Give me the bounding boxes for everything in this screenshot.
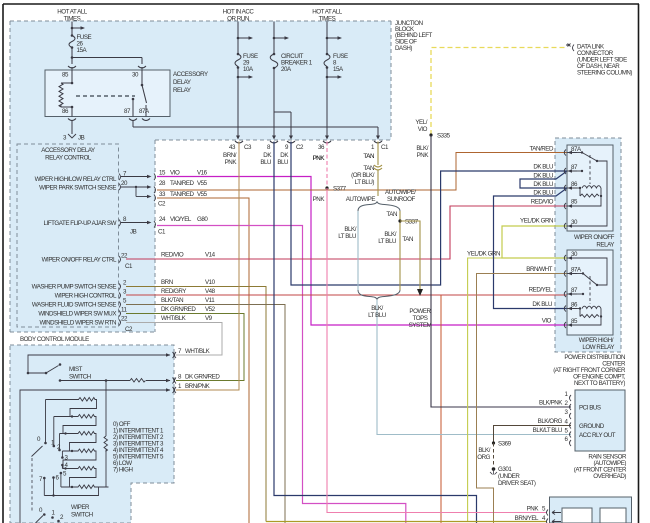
svg-text:WIPER HIGH/LOW RELAY CTRL: WIPER HIGH/LOW RELAY CTRL xyxy=(35,176,117,183)
relay1 wire labels xyxy=(520,146,554,225)
svg-text:15A: 15A xyxy=(333,66,344,73)
svg-text:SUNROOF: SUNROOF xyxy=(387,196,415,203)
svg-text:V11: V11 xyxy=(205,297,215,304)
mist switch circuit xyxy=(27,353,171,374)
svg-text:ACCESSORY: ACCESSORY xyxy=(173,71,208,78)
svg-text:PNK: PNK xyxy=(313,196,326,203)
svg-text:DK BLU: DK BLU xyxy=(533,173,553,180)
svg-text:V10: V10 xyxy=(205,279,216,286)
svg-text:TAN/RED: TAN/RED xyxy=(170,191,195,198)
svg-text:TIMES: TIMES xyxy=(319,16,336,23)
wire YEL/DK GRN branch down to wiper motor park xyxy=(468,258,502,522)
svg-text:RED/VIO: RED/VIO xyxy=(161,252,184,259)
svg-text:22: 22 xyxy=(121,316,128,323)
power distribution center box xyxy=(553,138,626,387)
fuse 29 circuit xyxy=(235,22,253,140)
svg-text:LT BLU: LT BLU xyxy=(378,238,396,245)
wire RED/VIO from BCM 22 to wiper on/off relay 85 xyxy=(126,206,567,259)
svg-text:WHT/BLK: WHT/BLK xyxy=(185,348,211,355)
svg-text:G80: G80 xyxy=(197,216,208,223)
BCM row arrows to junction connector xyxy=(119,174,156,326)
svg-text:BLK/: BLK/ xyxy=(344,226,356,233)
svg-text:RED/VIO: RED/VIO xyxy=(531,199,554,206)
junction block label xyxy=(395,20,433,52)
wire BRN/WHT relay2 87A to wiper motor xyxy=(477,274,568,523)
svg-text:87A: 87A xyxy=(571,146,582,153)
svg-text:YEL/DK GRN: YEL/DK GRN xyxy=(467,251,500,258)
wire DK GRN/RED from BCM 11 to wiper switch 8 xyxy=(126,314,244,381)
relay1 pin brackets xyxy=(564,150,577,230)
svg-text:BRN/YEL: BRN/YEL xyxy=(515,515,539,522)
svg-text:WIPER ON/OFF RELAY CTRL: WIPER ON/OFF RELAY CTRL xyxy=(42,257,117,264)
splice S335 xyxy=(429,133,432,136)
svg-text:YEL/: YEL/ xyxy=(415,119,427,126)
svg-text:TIMES: TIMES xyxy=(64,16,81,23)
svg-text:RELAY: RELAY xyxy=(596,242,614,249)
hot labels xyxy=(57,9,343,23)
wire YEL dashed to data link connector xyxy=(431,48,565,136)
svg-text:LT BLU: LT BLU xyxy=(338,233,356,240)
svg-text:WIPER: WIPER xyxy=(71,504,90,511)
wire TAN from JB 1 with inline connector xyxy=(374,142,382,197)
wire DK BLU relay1 86 to relay2 86 xyxy=(494,188,568,309)
wire DK BLU loop relay1 87 to 86 xyxy=(520,171,567,188)
svg-text:VIO: VIO xyxy=(542,318,552,325)
svg-text:PNK: PNK xyxy=(527,506,540,513)
svg-text:VIO: VIO xyxy=(418,126,428,133)
svg-text:BLK/ORG: BLK/ORG xyxy=(538,418,563,425)
ladder contact buses xyxy=(44,400,98,497)
svg-text:DK BLU: DK BLU xyxy=(532,301,552,308)
svg-text:ACCESSORY DELAY: ACCESSORY DELAY xyxy=(41,147,95,154)
svg-text:15: 15 xyxy=(159,170,166,177)
wire TAN from S337 to power tops system xyxy=(400,221,423,296)
relay2 pin brackets xyxy=(564,255,577,328)
svg-text:RED/YEL: RED/YEL xyxy=(529,287,553,294)
svg-text:20: 20 xyxy=(121,180,128,187)
svg-text:BODY CONTROL MODULE: BODY CONTROL MODULE xyxy=(20,336,89,343)
svg-text:TAN: TAN xyxy=(363,165,374,172)
svg-text:PCI BUS: PCI BUS xyxy=(579,405,601,412)
svg-text:86: 86 xyxy=(62,108,69,115)
svg-text:BRN/: BRN/ xyxy=(223,152,237,159)
svg-text:87: 87 xyxy=(571,287,578,294)
body control module box xyxy=(10,140,155,343)
svg-text:85: 85 xyxy=(571,199,578,206)
svg-text:TAN/RED: TAN/RED xyxy=(529,146,554,153)
svg-text:TAN: TAN xyxy=(402,236,413,243)
svg-text:BLU: BLU xyxy=(277,159,288,166)
wiper switch blade xyxy=(32,446,43,512)
wire BRN from BCM 2 to wiper motor BRN/YEL xyxy=(126,287,266,522)
BCM wire name labels xyxy=(158,170,216,323)
svg-text:BLK/: BLK/ xyxy=(416,145,428,152)
svg-text:V14: V14 xyxy=(205,252,216,259)
svg-text:S335: S335 xyxy=(437,133,451,140)
svg-text:MIST: MIST xyxy=(69,366,83,373)
svg-text:POWER: POWER xyxy=(409,308,431,315)
wiper motor box xyxy=(547,497,632,523)
svg-text:DK BLU: DK BLU xyxy=(533,164,553,171)
svg-text:V52: V52 xyxy=(205,306,216,313)
svg-text:STEERING COLUMN): STEERING COLUMN) xyxy=(577,70,632,77)
junction block box xyxy=(10,21,391,140)
svg-text:V9: V9 xyxy=(205,315,213,322)
autowipe left branch BLK/LT BLU xyxy=(357,211,359,290)
accessory delay relay control box xyxy=(17,144,119,327)
wiper switch mux wire with resistor xyxy=(59,379,171,383)
wiper high/low relay U-relay2 xyxy=(567,250,614,351)
svg-text:V55: V55 xyxy=(197,191,208,198)
autowipe right branch TAN xyxy=(399,211,401,290)
svg-text:TOPS: TOPS xyxy=(413,315,428,322)
svg-text:VIO/YEL: VIO/YEL xyxy=(170,216,192,223)
resistor ladder R1-R6 xyxy=(46,398,109,489)
wire BLK/LT BLU from brace to rain sensor 5 xyxy=(377,300,571,435)
wire TAN/RED from BCM 28 to wiper on/off relay 87A xyxy=(157,153,567,191)
svg-text:JB: JB xyxy=(130,229,137,236)
svg-text:20A: 20A xyxy=(281,66,292,73)
svg-text:C1: C1 xyxy=(125,263,133,270)
svg-text:VIO: VIO xyxy=(170,170,180,177)
svg-text:87A: 87A xyxy=(571,267,582,274)
svg-text:HOT IN ACC: HOT IN ACC xyxy=(223,9,255,16)
wire BRN/PNK from JB 43 to wiper switch 1 xyxy=(176,142,239,391)
switch contacts dots and numbers xyxy=(43,442,64,480)
svg-text:BRN/PNK: BRN/PNK xyxy=(185,383,211,390)
svg-text:24: 24 xyxy=(159,216,166,223)
svg-text:30: 30 xyxy=(571,251,578,258)
rain sensor box xyxy=(574,390,627,480)
wire WHT/BLK from BCM 22 to wiper switch 7 xyxy=(126,323,222,356)
svg-text:7) HIGH: 7) HIGH xyxy=(113,467,133,474)
svg-text:87: 87 xyxy=(571,164,578,171)
svg-text:GROUND: GROUND xyxy=(579,423,605,430)
svg-text:WASHER FLUID SWITCH SENSE: WASHER FLUID SWITCH SENSE xyxy=(32,302,116,309)
svg-text:LT BLU: LT BLU xyxy=(368,312,386,319)
relay pin 87 wire to JB pin 1 xyxy=(129,119,380,140)
vertical resistor from mux wire xyxy=(104,381,108,488)
switch position list xyxy=(113,421,164,474)
svg-text:TAN: TAN xyxy=(363,153,374,160)
svg-text:V55: V55 xyxy=(197,180,208,187)
svg-text:C2: C2 xyxy=(158,201,166,208)
svg-text:BLU: BLU xyxy=(260,159,271,166)
wire TAN/RED from BCM 33 down to wiper motor xyxy=(157,198,249,523)
svg-text:G301: G301 xyxy=(498,466,512,473)
svg-text:DK: DK xyxy=(280,152,289,159)
JB bottom connector brackets and pin labels xyxy=(235,141,382,143)
wire PNK from S377 to wiper motor 5 xyxy=(327,188,547,513)
svg-text:C2: C2 xyxy=(296,144,304,151)
svg-text:WIPER ON/OFF: WIPER ON/OFF xyxy=(574,234,615,241)
wire BLK/ORG rain sensor 4 to S369 xyxy=(494,426,572,444)
wire BLK/TAN from BCM 5 xyxy=(126,305,285,523)
svg-text:V16: V16 xyxy=(197,170,208,177)
wire RED/YEL branch down to motor xyxy=(440,295,442,523)
wire VIO/YEL from BCM 24 liftgate xyxy=(157,226,406,523)
svg-text:DRIVER SEAT): DRIVER SEAT) xyxy=(498,480,536,487)
svg-text:ACC RLY OUT: ACC RLY OUT xyxy=(579,432,616,439)
svg-text:WIPER HIGH/: WIPER HIGH/ xyxy=(579,337,614,344)
svg-text:DK BLU: DK BLU xyxy=(533,190,553,197)
svg-text:PNK: PNK xyxy=(417,152,430,159)
svg-text:PNK: PNK xyxy=(313,155,326,162)
wire DK BLU from JB 8 down to wiper motor xyxy=(274,142,477,523)
rain sensor pins xyxy=(570,395,572,446)
svg-text:S369: S369 xyxy=(498,441,512,448)
svg-text:LT BLU): LT BLU) xyxy=(355,179,375,186)
svg-text:OR RUN: OR RUN xyxy=(227,16,249,23)
svg-text:HOT AT ALL: HOT AT ALL xyxy=(312,9,343,16)
wiper on/off relay U-relay1 xyxy=(567,145,615,249)
svg-text:33: 33 xyxy=(159,191,166,198)
svg-text:TAN/RED: TAN/RED xyxy=(170,180,195,187)
svg-text:30: 30 xyxy=(571,219,578,226)
svg-text:WASHER PUMP SWITCH SENSE: WASHER PUMP SWITCH SENSE xyxy=(32,284,117,291)
relay2 wire labels xyxy=(467,251,553,325)
svg-text:85: 85 xyxy=(62,72,69,79)
relay1 internals xyxy=(567,151,607,226)
svg-text:LOW RELAY: LOW RELAY xyxy=(582,344,614,351)
svg-text:TAN: TAN xyxy=(386,211,397,218)
wire RED/GRY / RED/YEL from BCM 3 to wiper high/low relay 87 xyxy=(126,294,567,296)
svg-text:WINDSHIELD WIPER SW RTN: WINDSHIELD WIPER SW RTN xyxy=(39,320,116,327)
relay pin 86 wire to JB terminal 3 xyxy=(68,119,76,139)
BCM pin numbers / connector labels xyxy=(121,171,137,334)
svg-text:SWITCH: SWITCH xyxy=(71,512,93,519)
data link connector symbol and label xyxy=(566,44,574,52)
svg-text:HOT AT ALL: HOT AT ALL xyxy=(57,9,88,16)
svg-text:DASH): DASH) xyxy=(395,45,412,52)
svg-text:DK: DK xyxy=(263,152,272,159)
wire BRN/YEL to wiper motor 4 xyxy=(266,521,547,523)
svg-text:DK GRN/RED: DK GRN/RED xyxy=(161,306,196,313)
svg-text:S377: S377 xyxy=(333,186,347,193)
wire DK BLU from JB 9 to wiper on/off relay 87 xyxy=(291,142,567,286)
ground G301 xyxy=(493,443,495,467)
svg-text:43: 43 xyxy=(229,144,236,151)
svg-text:WINDSHIELD WIPER SW MUX: WINDSHIELD WIPER SW MUX xyxy=(38,311,116,318)
svg-text:RELAY: RELAY xyxy=(173,87,191,94)
svg-text:AUTOWIPE: AUTOWIPE xyxy=(346,196,376,203)
svg-text:WIPER HIGH CONTROL: WIPER HIGH CONTROL xyxy=(55,293,117,300)
svg-text:LIFTGATE FLIP-UP AJAR SW: LIFTGATE FLIP-UP AJAR SW xyxy=(43,220,116,227)
svg-text:AUTOWIPE/: AUTOWIPE/ xyxy=(385,189,416,196)
svg-text:NEXT TO BATTERY): NEXT TO BATTERY) xyxy=(574,380,625,387)
svg-text:86: 86 xyxy=(571,181,578,188)
wire BLK/PNK from S335 to rain sensor 2 xyxy=(431,135,571,407)
svg-text:WIPER PARK SWITCH SENSE: WIPER PARK SWITCH SENSE xyxy=(39,185,116,192)
svg-text:36: 36 xyxy=(318,144,325,151)
svg-text:S337: S337 xyxy=(405,219,419,226)
brace split top xyxy=(358,202,400,212)
svg-text:SYSTEM: SYSTEM xyxy=(409,322,432,329)
wire YEL/DK GRN relay30 to relay30 xyxy=(502,226,567,258)
svg-text:C1: C1 xyxy=(381,144,389,151)
brace merge bottom xyxy=(358,290,400,300)
svg-text:SWITCH: SWITCH xyxy=(69,374,91,381)
svg-text:ORG: ORG xyxy=(477,454,490,461)
svg-text:10A: 10A xyxy=(243,66,254,73)
accessory delay relay box xyxy=(45,70,208,117)
svg-text:C1: C1 xyxy=(158,229,166,236)
BCM pin rows: left labels xyxy=(32,176,117,327)
svg-text:(OR BLK/: (OR BLK/ xyxy=(351,172,375,179)
svg-text:C2: C2 xyxy=(125,326,133,333)
wire PNK dashed from JB 36 to splice S377 xyxy=(326,142,328,189)
splice S369 xyxy=(492,441,495,444)
svg-text:DELAY: DELAY xyxy=(173,79,191,86)
svg-text:28: 28 xyxy=(159,180,166,187)
svg-text:YEL/DK GRN: YEL/DK GRN xyxy=(520,218,553,225)
svg-text:BLK/: BLK/ xyxy=(384,231,396,238)
svg-text:V48: V48 xyxy=(205,288,216,295)
svg-text:86: 86 xyxy=(571,302,578,309)
splice S377 xyxy=(325,186,328,189)
svg-text:87: 87 xyxy=(124,108,131,115)
fuse 8 circuit xyxy=(324,22,342,140)
splice S337 xyxy=(398,219,401,222)
svg-text:OVERHEAD): OVERHEAD) xyxy=(593,473,626,480)
svg-text:30: 30 xyxy=(132,72,139,79)
wiper switch pins 7/8/1 on box edge xyxy=(173,352,177,393)
fuse 26 circuit xyxy=(68,22,146,71)
svg-text:JB: JB xyxy=(78,135,85,142)
svg-text:PNK: PNK xyxy=(225,159,238,166)
svg-text:RED/GRY: RED/GRY xyxy=(161,288,186,295)
wire VIO from BCM 15 to wiper high/low relay 85 xyxy=(157,177,567,326)
svg-text:RELAY CONTROL: RELAY CONTROL xyxy=(45,155,92,162)
svg-text:BLK/: BLK/ xyxy=(478,447,490,454)
svg-text:85: 85 xyxy=(571,318,578,325)
circuit breaker 1 xyxy=(270,22,293,140)
svg-text:(UNDER: (UNDER xyxy=(498,473,520,480)
svg-text:DK BLU: DK BLU xyxy=(533,181,553,188)
svg-text:BLK/PNK: BLK/PNK xyxy=(539,400,563,407)
svg-text:DK GRN/RED: DK GRN/RED xyxy=(185,374,220,381)
wiper switch return wire xyxy=(20,388,171,523)
svg-text:BRN/WHT: BRN/WHT xyxy=(526,266,552,273)
wiper switch second pole xyxy=(36,513,60,523)
svg-text:87A: 87A xyxy=(139,108,150,115)
accessory delay relay internals xyxy=(59,70,147,117)
wiper switch box xyxy=(10,345,174,523)
svg-text:15A: 15A xyxy=(77,47,88,54)
svg-text:WHT/BLK: WHT/BLK xyxy=(161,315,187,322)
relay2 internals xyxy=(567,258,607,325)
svg-text:BLK/LT BLU: BLK/LT BLU xyxy=(533,427,562,434)
svg-text:BLK/TAN: BLK/TAN xyxy=(161,297,183,304)
svg-text:C3: C3 xyxy=(244,144,252,151)
svg-text:BRN: BRN xyxy=(161,279,173,286)
svg-text:BLK/: BLK/ xyxy=(371,305,383,312)
